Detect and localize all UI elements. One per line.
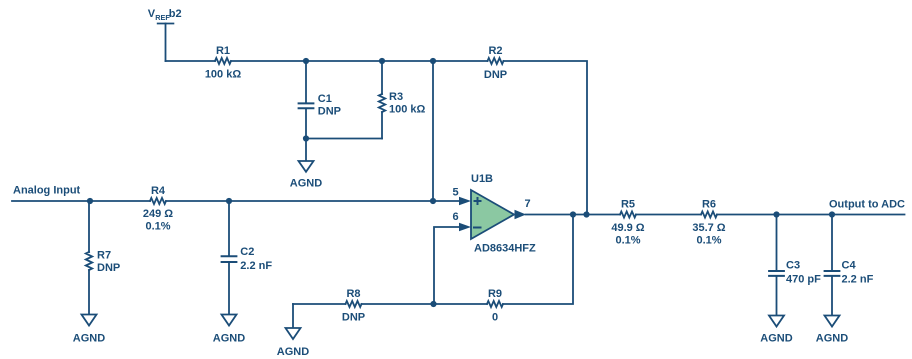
resistor R8 xyxy=(342,288,365,324)
svg-text:249 Ω: 249 Ω xyxy=(143,208,173,220)
node junction C4 tap xyxy=(829,211,835,217)
op-amp U1B xyxy=(471,173,536,255)
svg-text:0.1%: 0.1% xyxy=(615,235,640,247)
svg-text:2.2 nF: 2.2 nF xyxy=(240,260,272,272)
resistor R6 xyxy=(692,199,725,247)
wire top rail segment 2 xyxy=(231,60,488,62)
svg-text:AGND: AGND xyxy=(277,346,309,358)
wire R8 left xyxy=(293,303,346,305)
resistor R2 xyxy=(484,45,507,81)
node junction feedback top xyxy=(570,211,576,217)
node junction C1 top xyxy=(303,58,309,64)
pin 6 arrowhead xyxy=(459,223,471,231)
svg-text:R2: R2 xyxy=(488,45,502,57)
resistor R9 xyxy=(487,288,503,324)
wire analog input segment 2 xyxy=(166,200,460,202)
svg-text:100 kΩ: 100 kΩ xyxy=(205,69,242,81)
svg-text:R6: R6 xyxy=(702,199,716,211)
resistor R1 xyxy=(205,45,242,81)
ground AGND under C1 xyxy=(290,139,322,190)
svg-text:0.1%: 0.1% xyxy=(145,221,170,233)
svg-text:AGND: AGND xyxy=(760,333,792,345)
svg-text:R7: R7 xyxy=(97,250,111,262)
resistor R3 xyxy=(379,61,426,139)
node junction C1 bottom xyxy=(303,135,309,141)
svg-text:C4: C4 xyxy=(842,260,857,272)
capacitor C1 xyxy=(299,61,341,139)
ground AGND under C2 xyxy=(213,315,245,345)
wire R8 right to junction xyxy=(362,303,488,305)
wire output segment 1 xyxy=(526,214,621,216)
wire R9 right up to output xyxy=(503,215,573,305)
node junction R3 top xyxy=(379,58,385,64)
wire top rail segment 1 xyxy=(166,60,216,62)
wire divider tap to +input xyxy=(432,61,434,201)
resistor R5 xyxy=(611,199,644,247)
resistor R4 xyxy=(143,185,173,233)
wire output segment 3 xyxy=(717,214,905,216)
svg-text:R4: R4 xyxy=(151,185,166,197)
svg-text:R9: R9 xyxy=(488,288,502,300)
pin 5 arrowhead xyxy=(459,197,471,205)
capacitor C3 xyxy=(769,215,821,316)
svg-text:AGND: AGND xyxy=(73,333,105,345)
node junction C2 tap xyxy=(226,198,232,204)
svg-text:AD8634HFZ: AD8634HFZ xyxy=(474,243,536,255)
wire output segment 2 xyxy=(636,214,701,216)
svg-text:AGND: AGND xyxy=(816,333,848,345)
svg-text:R5: R5 xyxy=(621,199,635,211)
svg-text:470 pF: 470 pF xyxy=(786,274,821,286)
node junction divider tap xyxy=(430,58,436,64)
svg-text:R8: R8 xyxy=(346,288,360,300)
svg-text:DNP: DNP xyxy=(97,262,120,274)
svg-text:Analog Input: Analog Input xyxy=(13,185,81,197)
power VREF b2 xyxy=(148,8,182,61)
svg-text:R3: R3 xyxy=(389,91,403,103)
svg-text:100 kΩ: 100 kΩ xyxy=(389,104,426,116)
ground AGND under C4 xyxy=(816,316,848,345)
wire -input xyxy=(434,227,459,304)
svg-text:Output to ADC: Output to ADC xyxy=(829,199,905,211)
svg-text:C1: C1 xyxy=(318,93,332,105)
capacitor C4 xyxy=(825,215,874,316)
node junction feedback xyxy=(430,301,436,307)
svg-text:DNP: DNP xyxy=(484,69,507,81)
svg-text:0.1%: 0.1% xyxy=(696,235,721,247)
node junction C3 tap xyxy=(773,211,779,217)
pin 7 output arrowhead xyxy=(515,210,527,220)
wire C1/R3 bottom node xyxy=(306,138,382,140)
svg-text:AGND: AGND xyxy=(290,177,322,189)
svg-text:6: 6 xyxy=(452,211,458,223)
svg-text:2.2 nF: 2.2 nF xyxy=(842,274,874,286)
svg-text:49.9 Ω: 49.9 Ω xyxy=(611,222,644,234)
svg-text:DNP: DNP xyxy=(318,106,341,118)
ground AGND under C3 xyxy=(760,316,792,345)
svg-text:R1: R1 xyxy=(216,45,230,57)
svg-text:7: 7 xyxy=(524,198,530,210)
node junction R7 tap xyxy=(87,198,93,204)
svg-text:5: 5 xyxy=(452,187,458,199)
node junction R2 bottom xyxy=(583,211,589,217)
svg-text:C3: C3 xyxy=(786,260,800,272)
svg-text:0: 0 xyxy=(492,312,498,324)
resistor R7 xyxy=(86,201,120,315)
svg-text:AGND: AGND xyxy=(213,333,245,345)
svg-text:b2: b2 xyxy=(169,8,182,20)
wire top rail segment 3 and drop to output node xyxy=(504,61,588,215)
svg-text:35.7 Ω: 35.7 Ω xyxy=(692,222,725,234)
svg-text:DNP: DNP xyxy=(342,312,365,324)
ground AGND under R7 xyxy=(73,315,105,345)
ground AGND under R8 xyxy=(277,304,309,358)
wire analog input segment 1 xyxy=(12,200,150,202)
svg-text:C2: C2 xyxy=(240,246,254,258)
node junction +input xyxy=(430,198,436,204)
capacitor C2 xyxy=(222,201,273,315)
svg-text:U1B: U1B xyxy=(471,173,493,185)
